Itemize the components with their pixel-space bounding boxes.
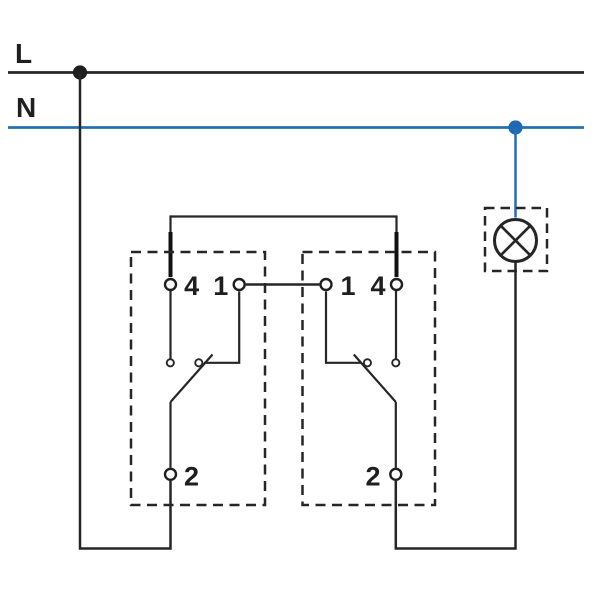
wire linking terminal 1 of S1 to terminal 1 of S2 [246,283,320,286]
svg-text:2: 2 [365,462,380,492]
terminal pin 1 of S1 [234,279,245,290]
wire L (line bus) [8,71,584,74]
terminal pin 2 of S1 [165,469,176,480]
wire from L junction to switch S1 terminal 2 [80,73,171,549]
junction on L [73,65,87,79]
lamp E1 symbol [495,220,537,262]
terminal pin 4 of S1 [165,279,176,290]
wire from N junction to lamp E1 [514,128,517,218]
wire bold stub above S1 terminal 4 [169,232,173,277]
junction on N [508,120,522,134]
svg-text:2: 2 [184,462,199,492]
contact point left of S2 [364,359,371,366]
wire S2 terminal 1 down to left contact [326,292,362,363]
wire S2 terminal 4 to right contact [395,291,397,359]
switch blade S2 [354,355,396,403]
terminal pin 4 of S2 [391,279,402,290]
contact point right of S2 [392,359,399,366]
lamp E1 enclosure (dashed) [485,208,547,271]
svg-text:L: L [15,38,32,69]
wire S1 blade to terminal 2 [169,402,171,468]
svg-text:1: 1 [213,271,228,301]
wire S1 terminal 4 to left contact [169,291,171,359]
wire linking terminal 4 of S1 to terminal 4 of S2 [171,217,397,278]
switch S2 enclosure (dashed) [303,252,436,505]
wire S2 blade to terminal 2 [395,402,397,468]
terminal pin 1 of S2 [321,279,332,290]
svg-text:4: 4 [370,271,385,301]
wire S1 terminal 1 down to right contact [204,292,239,363]
svg-text:N: N [16,92,36,123]
wire N (neutral bus) [8,126,584,129]
svg-text:4: 4 [184,271,199,301]
switch blade S1 [171,355,213,403]
contact point left of S1 [167,359,174,366]
wire lamp E1 to switch S2 terminal 2 [396,262,516,549]
terminal pin 2 of S2 [390,469,401,480]
svg-text:1: 1 [340,271,355,301]
contact point right of S1 [195,359,202,366]
wire bold stub above S2 terminal 4 [395,232,399,277]
switch S1 enclosure (dashed) [131,252,265,505]
